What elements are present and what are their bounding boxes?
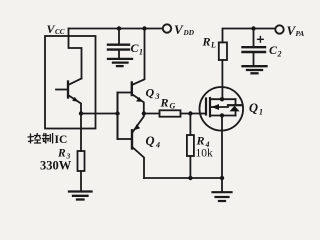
mosfet Q1 channel bar	[209, 98, 211, 116]
resistor R4	[187, 135, 194, 156]
node source stub	[220, 113, 224, 117]
node Q3 collector on rail	[142, 26, 146, 30]
wire R3 to ground	[80, 171, 82, 191]
ground below C1	[108, 59, 132, 66]
control IC box	[45, 36, 96, 129]
transistor Q3 emitter arrow	[136, 97, 143, 102]
mosfet Q1 body circle	[200, 87, 244, 131]
wire IC output to driver bases	[81, 113, 118, 115]
svg-text:IC: IC	[55, 134, 68, 146]
ground below C2	[243, 66, 267, 73]
svg-text:L: L	[210, 41, 216, 50]
mosfet Q1 gate bar	[205, 99, 207, 115]
wire C2 bottom lead	[253, 52, 255, 65]
wire top-left rail Vcc to Vdd	[69, 28, 163, 30]
capacitor C2 plates	[243, 46, 266, 48]
node base tie junction	[115, 111, 119, 115]
svg-text:3: 3	[155, 92, 160, 101]
node IC output junction	[79, 111, 83, 115]
transistor internal NPN base lead	[56, 89, 68, 91]
svg-text:V: V	[174, 22, 184, 37]
wire Vcc drop into IC box	[69, 29, 82, 79]
resistor R3	[78, 151, 85, 171]
svg-text:2: 2	[277, 50, 282, 59]
svg-text:DD: DD	[183, 29, 195, 37]
svg-text:PA: PA	[296, 30, 305, 38]
wire RL top to right rail	[223, 29, 276, 43]
transistor Q4 base bar	[131, 130, 133, 148]
transistor internal NPN base bar	[67, 82, 69, 98]
svg-text:R: R	[196, 134, 205, 148]
wire Q4 base lead	[118, 138, 132, 140]
node drain stub	[220, 97, 224, 101]
svg-text:1: 1	[139, 48, 143, 57]
ground below R3	[69, 192, 92, 200]
node RG/R4 junction	[188, 111, 192, 115]
terminal VPA	[275, 25, 283, 33]
mosfet Q1 drain stub	[210, 98, 236, 100]
transistor Q3 emitter	[132, 94, 144, 114]
svg-text:Q: Q	[146, 86, 155, 100]
wire ground stem	[221, 178, 223, 191]
capacitor C2 plus sign	[258, 37, 264, 43]
wire RG to gate	[181, 113, 207, 115]
svg-text:R: R	[160, 96, 169, 110]
wire R3 branch down	[80, 114, 82, 152]
svg-text:R: R	[202, 35, 211, 49]
wire C1 top lead	[118, 29, 120, 45]
node C1 junction	[117, 26, 121, 30]
glyph 控	[28, 134, 41, 144]
transistor Q4 emitter arrow	[134, 124, 140, 130]
resistor RG	[160, 110, 181, 116]
wire C2 top lead	[253, 29, 255, 48]
node driver output junction	[142, 111, 146, 115]
wire bottom rail	[144, 177, 222, 179]
ground below source rail	[213, 192, 232, 201]
capacitor C1 plates	[108, 44, 129, 46]
transistor Q3 collector	[132, 29, 145, 86]
svg-text:CC: CC	[55, 28, 65, 36]
wire Q3 base lead	[118, 92, 132, 94]
transistor internal NPN emitter	[68, 95, 81, 114]
node R4 bottom junction	[188, 176, 192, 180]
diode triangle	[230, 106, 240, 112]
wire drain up to RL	[221, 60, 223, 99]
transistor internal NPN collector	[68, 79, 82, 86]
svg-text:1: 1	[259, 108, 263, 117]
node source ground junction	[220, 176, 224, 180]
mosfet body diode leads	[235, 99, 237, 105]
mosfet Q1 source stub	[210, 115, 236, 117]
svg-text:330W: 330W	[40, 159, 72, 173]
svg-text:Q: Q	[146, 134, 155, 148]
wire base tie bar	[117, 93, 119, 140]
transistor Q3 base bar	[131, 83, 133, 96]
diode cathode bar	[228, 104, 241, 106]
transistor Q4 emitter	[133, 114, 144, 132]
svg-text:10k: 10k	[196, 148, 214, 160]
svg-text:Q: Q	[249, 101, 258, 115]
terminal VDD	[163, 24, 171, 32]
svg-text:G: G	[170, 102, 176, 111]
wire R4 top lead	[189, 114, 191, 136]
resistor RL	[219, 42, 227, 60]
label 控制IC hand-drawn glyphs	[28, 134, 53, 144]
wire driver output to RG	[144, 113, 160, 115]
transistor Q4 collector	[132, 147, 144, 178]
transistor internal NPN emitter arrow	[72, 97, 78, 102]
node C2 junction	[251, 26, 255, 30]
mosfet Q1 body stub with arrow	[210, 106, 228, 108]
wire R4 bottom lead	[189, 156, 191, 178]
glyph 制	[43, 134, 53, 144]
wire C1 bottom lead	[118, 50, 120, 58]
wire source down to rail	[221, 116, 223, 179]
svg-text:4: 4	[155, 141, 160, 150]
